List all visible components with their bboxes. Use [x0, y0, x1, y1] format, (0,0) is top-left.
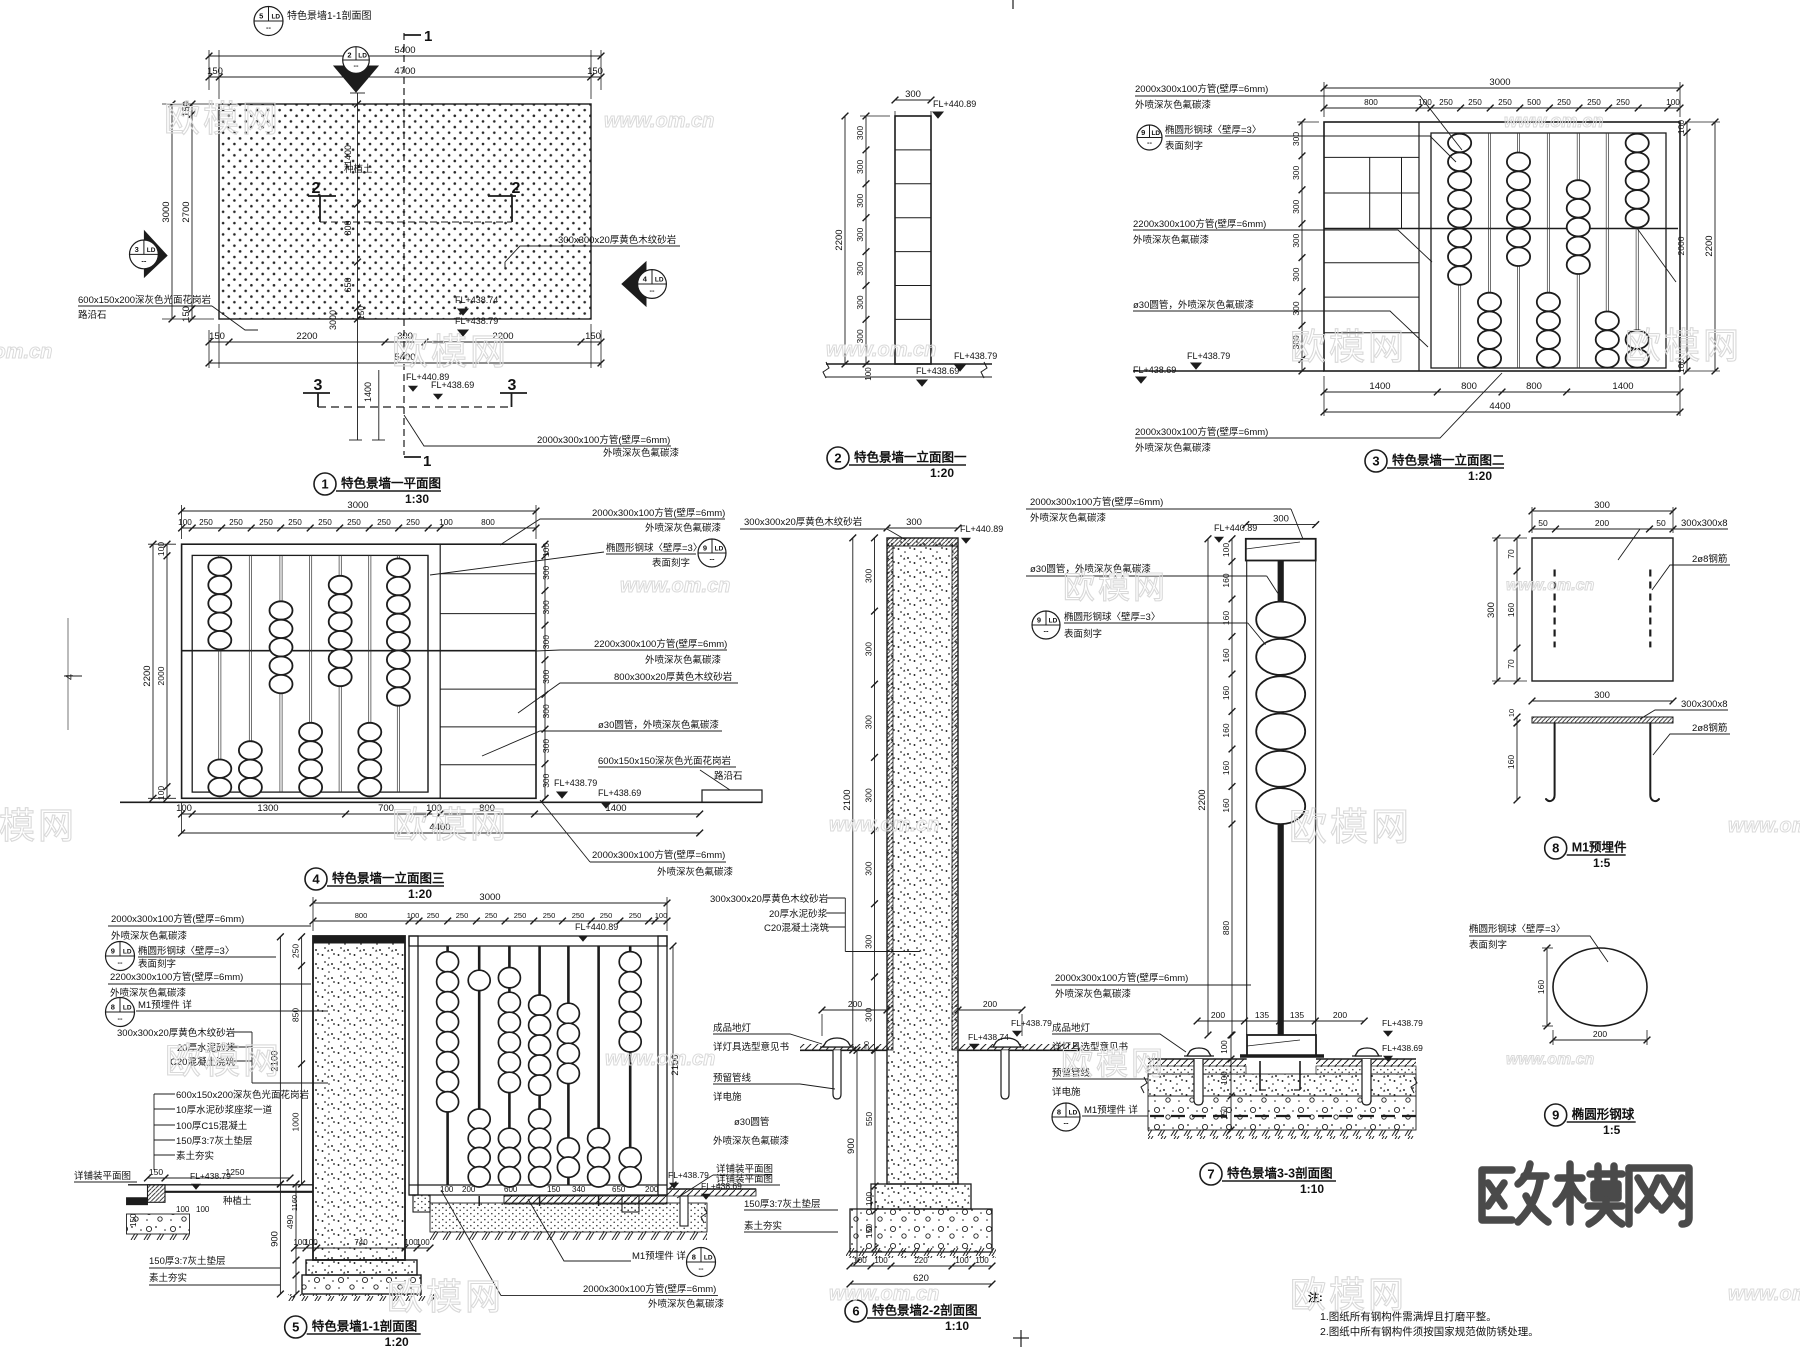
svg-text:ø30圆管，外喷深灰色氟碳漆: ø30圆管，外喷深灰色氟碳漆: [598, 719, 719, 731]
left panel divider: [1418, 122, 1420, 371]
ground line: [120, 801, 762, 803]
svg-text:490: 490: [285, 1215, 295, 1229]
svg-text:外喷深灰色氟碳漆: 外喷深灰色氟碳漆: [1135, 442, 1212, 454]
svg-text:FL+438.69: FL+438.69: [916, 366, 959, 376]
svg-text:椭圆形钢球〈壁厚=3〉: 椭圆形钢球〈壁厚=3〉: [1469, 923, 1565, 935]
gravel layer with dashed line: [1148, 1096, 1416, 1130]
svg-text:150厚3:7灰土垫层: 150厚3:7灰土垫层: [744, 1198, 821, 1210]
svg-text:特色景墙1-1剖面图: 特色景墙1-1剖面图: [312, 1319, 418, 1334]
top dimension chain 800/100/250...: [1324, 107, 1680, 109]
svg-text:1:20: 1:20: [1468, 469, 1492, 483]
svg-text:6: 6: [852, 1304, 859, 1319]
abacus beads column 7: [387, 559, 410, 577]
right dimension chain 100/2000/100: [1686, 122, 1688, 371]
svg-text:2ø8钢筋: 2ø8钢筋: [1692, 553, 1727, 565]
svg-text:3: 3: [314, 377, 323, 394]
svg-text:外喷深灰色氟碳漆: 外喷深灰色氟碳漆: [1135, 99, 1212, 111]
abacus inner frame: [192, 555, 428, 792]
svg-text:300: 300: [1273, 514, 1289, 525]
svg-text:--: --: [354, 61, 359, 70]
svg-text:100: 100: [176, 803, 192, 814]
ground lights: [1184, 1055, 1214, 1057]
svg-text:600: 600: [504, 1185, 518, 1194]
svg-text:1400: 1400: [1369, 381, 1390, 392]
svg-text:2200: 2200: [142, 665, 153, 686]
dim 160 left: [1546, 948, 1548, 1026]
svg-text:3000: 3000: [347, 500, 368, 511]
abacus beads column 4: [1537, 293, 1560, 312]
svg-text:特色景墙一立面图二: 特色景墙一立面图二: [1392, 453, 1505, 468]
svg-text:3: 3: [1372, 454, 1379, 469]
abacus beads column 2: [239, 741, 262, 759]
svg-text:100: 100: [196, 1205, 210, 1214]
svg-text:2: 2: [347, 51, 351, 60]
svg-text:外喷深灰色氟碳漆: 外喷深灰色氟碳漆: [645, 522, 722, 534]
svg-text:200: 200: [848, 999, 862, 1009]
svg-text:LD: LD: [1151, 130, 1160, 137]
svg-text:7: 7: [1207, 1167, 1214, 1182]
centre steel bar: [1278, 561, 1284, 1036]
svg-text:8: 8: [1057, 1108, 1061, 1117]
svg-text:880: 880: [1221, 921, 1231, 935]
dim 300 above plate: [1532, 700, 1673, 702]
dim 200 bottom: [1553, 1039, 1647, 1041]
title 5: [285, 1316, 307, 1338]
svg-text:FL+440.89: FL+440.89: [575, 922, 618, 932]
abacus rods: [218, 555, 220, 792]
overall 2200: [844, 116, 846, 364]
svg-text:250: 250: [543, 911, 556, 920]
right overall 2200: [1714, 122, 1716, 371]
svg-text:1:5: 1:5: [1593, 856, 1611, 870]
mid horizontal tube 2200x300x100: [1324, 228, 1678, 230]
svg-text:300: 300: [855, 160, 865, 174]
svg-text:FL+438.79: FL+438.79: [954, 351, 997, 361]
title 9 椭圆形钢球 1:5: [1545, 1104, 1567, 1126]
svg-text:--: --: [1064, 1119, 1069, 1128]
svg-text:150: 150: [149, 1167, 163, 1177]
svg-text:欧模网: 欧模网: [1289, 807, 1412, 849]
svg-text:1: 1: [423, 453, 431, 470]
abacus rods: [1458, 133, 1460, 368]
svg-text:2000x300x100方管(壁厚=6mm): 2000x300x100方管(壁厚=6mm): [583, 1283, 716, 1295]
svg-text:www.om.cn: www.om.cn: [829, 1283, 939, 1305]
svg-text:50: 50: [1656, 518, 1666, 528]
svg-text:FL+438.79: FL+438.79: [1382, 1018, 1423, 1028]
svg-text:2: 2: [512, 180, 521, 197]
ground strata left of wall: [128, 1184, 313, 1186]
svg-text:LD: LD: [123, 949, 132, 956]
svg-text:300x300x20厚黄色木纹砂岩: 300x300x20厚黄色木纹砂岩: [744, 516, 862, 528]
left dimension chain 300x7: [860, 115, 890, 117]
section beads bar6: [588, 1128, 610, 1148]
svg-text:表面刻字: 表面刻字: [1165, 140, 1203, 152]
svg-text:100: 100: [541, 543, 551, 557]
svg-text:50: 50: [864, 1041, 871, 1049]
svg-text:300x300x8: 300x300x8: [1681, 518, 1727, 529]
svg-text:300: 300: [1594, 690, 1610, 701]
left chain 100/2000/100: [166, 544, 168, 798]
elevation view 特色景墙一立面图二: [1133, 77, 1720, 483]
svg-text:FL+438.79: FL+438.79: [1011, 1018, 1052, 1028]
svg-text:250: 250: [406, 518, 420, 527]
svg-text:9: 9: [703, 544, 707, 553]
top chain 50/200/50: [1532, 528, 1673, 530]
svg-text:欧模网: 欧模网: [392, 331, 509, 372]
svg-text:150厚3:7灰土垫层: 150厚3:7灰土垫层: [149, 1255, 226, 1267]
svg-text:200: 200: [1333, 1010, 1347, 1020]
svg-text:250: 250: [1498, 98, 1512, 107]
svg-text:135: 135: [1290, 1010, 1304, 1020]
section line 1-1 vertical dashed: [403, 33, 405, 455]
svg-text:--: --: [118, 958, 123, 967]
svg-text:LD: LD: [271, 14, 280, 21]
svg-text:LD: LD: [704, 1255, 713, 1262]
svg-text:70: 70: [1506, 659, 1516, 669]
dims 200 200: [822, 1009, 887, 1011]
svg-text:--: --: [1147, 138, 1152, 147]
abacus beads column 4: [299, 723, 322, 741]
title 2 特色景墙一立面图一 1:20: [827, 447, 849, 469]
top chain 100/250x8/100/800: [182, 527, 536, 529]
svg-text:外喷深灰色氟碳漆: 外喷深灰色氟碳漆: [1030, 512, 1107, 524]
bottom cap: [1247, 1035, 1316, 1056]
horizontal joints: [895, 149, 931, 151]
svg-text:100: 100: [955, 1256, 969, 1265]
section beads bar3: [498, 968, 520, 988]
svg-text:1:10: 1:10: [1300, 1182, 1324, 1196]
svg-text:1:20: 1:20: [930, 466, 954, 480]
earth hatch under footing: [288, 1294, 434, 1301]
svg-text:200: 200: [1211, 1010, 1225, 1020]
svg-text:1: 1: [321, 477, 328, 492]
svg-text:欧模网: 欧模网: [164, 98, 281, 139]
svg-text:FL+438.79: FL+438.79: [455, 316, 498, 326]
dim 150 1250: [148, 1177, 291, 1179]
bottom dimension 150 2200 300 2200 150: [218, 324, 220, 368]
svg-text:FL+438.79: FL+438.79: [1187, 351, 1230, 361]
abacus beads column 6: [1596, 312, 1619, 331]
svg-text:100: 100: [178, 518, 192, 527]
svg-text:300x300x20厚黄色木纹砂岩: 300x300x20厚黄色木纹砂岩: [710, 893, 828, 905]
svg-text:成品地灯: 成品地灯: [713, 1022, 752, 1034]
svg-text:2000x300x100方管(壁厚=6mm): 2000x300x100方管(壁厚=6mm): [1135, 83, 1268, 95]
marker bubble 9-LD 椭圆形钢球: [1137, 125, 1162, 150]
svg-text:种植土: 种植土: [223, 1195, 252, 1207]
svg-text:外喷深灰色氟碳漆: 外喷深灰色氟碳漆: [603, 447, 680, 459]
svg-text:250: 250: [199, 518, 213, 527]
svg-text:3000: 3000: [479, 892, 500, 903]
svg-text:300: 300: [1291, 267, 1301, 281]
svg-text:4: 4: [312, 872, 320, 887]
frame side lines: [1246, 561, 1248, 1036]
outer wall rectangle: [1324, 122, 1680, 371]
wall footing gravel: [302, 1275, 421, 1294]
svg-text:路沿石: 路沿石: [78, 309, 107, 321]
ground strata right of frame: [667, 1188, 756, 1190]
svg-text:100: 100: [975, 1256, 989, 1265]
svg-text:外喷深灰色氟碳漆: 外喷深灰色氟碳漆: [648, 1298, 725, 1310]
soil layer: [1148, 1074, 1416, 1096]
rebar dashed lines: [1553, 570, 1555, 648]
svg-text:1:30: 1:30: [405, 492, 429, 506]
top dim 300: [887, 527, 958, 529]
plate plan square: [1532, 538, 1673, 681]
svg-text:200: 200: [645, 1185, 659, 1194]
right panel horizontal joints: [440, 573, 536, 575]
svg-text:550: 550: [864, 1112, 874, 1126]
svg-text:500: 500: [1527, 98, 1541, 107]
svg-text:--: --: [141, 256, 146, 265]
svg-text:2000x300x100方管(壁厚=6mm): 2000x300x100方管(壁厚=6mm): [111, 913, 244, 925]
svg-text:250: 250: [291, 944, 301, 958]
svg-text:250: 250: [259, 518, 273, 527]
svg-text:250: 250: [572, 911, 585, 920]
plan centre pole line: [357, 93, 359, 440]
svg-text:300x300x8: 300x300x8: [1681, 699, 1727, 710]
svg-text:1400: 1400: [1612, 381, 1633, 392]
svg-text:欧模网: 欧模网: [1290, 326, 1407, 367]
svg-text:FL+438.69: FL+438.69: [431, 380, 474, 390]
svg-text:100: 100: [176, 1205, 190, 1214]
svg-text:8: 8: [111, 1003, 115, 1012]
svg-text:160: 160: [1221, 573, 1231, 587]
svg-text:详电施: 详电施: [1052, 1086, 1081, 1098]
svg-text:欧模网: 欧模网: [1290, 1274, 1407, 1315]
svg-text:150: 150: [209, 331, 225, 342]
ground light left: [820, 1046, 854, 1048]
marker bubble 5-LD with title text: [254, 7, 283, 36]
svg-text:欧模网: 欧模网: [1063, 569, 1168, 605]
planting area dotted rectangle: [219, 104, 591, 319]
svg-text:160: 160: [1506, 603, 1516, 617]
svg-text:www.om.cn: www.om.cn: [620, 575, 730, 597]
kerb hatch block: [148, 1185, 166, 1203]
svg-text:800: 800: [1364, 98, 1378, 107]
svg-text:250: 250: [347, 518, 361, 527]
svg-text:1160: 1160: [290, 1195, 299, 1211]
svg-text:9: 9: [1037, 616, 1041, 625]
title 6 特色景墙2-2剖面图 1:10: [845, 1300, 867, 1322]
svg-text:椭圆形钢球〈壁厚=3〉: 椭圆形钢球〈壁厚=3〉: [1165, 124, 1261, 136]
big watermark logo 欧模网: [1482, 1164, 1689, 1224]
title 1 特色景墙一平面图 1:30: [314, 473, 336, 495]
svg-text:C20混凝土浇筑: C20混凝土浇筑: [764, 922, 829, 934]
svg-text:10厚水泥砂浆座浆一道: 10厚水泥砂浆座浆一道: [176, 1104, 273, 1116]
left dimension chain 300s: [1301, 122, 1303, 371]
abacus beads column 5: [1567, 180, 1590, 199]
svg-text:250: 250: [1557, 98, 1571, 107]
svg-text:1400: 1400: [363, 382, 373, 402]
svg-text:300: 300: [864, 934, 874, 948]
svg-text:欧模网: 欧模网: [387, 1276, 504, 1317]
svg-text:外喷深灰色氟碳漆: 外喷深灰色氟碳漆: [645, 654, 722, 666]
top dimension 3000: [1323, 82, 1325, 117]
svg-text:100: 100: [407, 911, 420, 920]
svg-text:特色景墙1-1剖面图: 特色景墙1-1剖面图: [287, 9, 371, 22]
svg-text:300: 300: [1486, 602, 1497, 618]
svg-text:外喷深灰色氟碳漆: 外喷深灰色氟碳漆: [657, 866, 734, 878]
svg-text:740: 740: [354, 1238, 368, 1247]
svg-text:160: 160: [1221, 648, 1231, 662]
abacus inner frame: [1431, 133, 1666, 368]
svg-text:www.om.cn: www.om.cn: [1506, 577, 1595, 594]
abacus frame in section: [409, 936, 667, 946]
section beads bar1: [437, 952, 459, 972]
svg-text:1:5: 1:5: [1603, 1123, 1621, 1137]
left dim 900 550 100 150: [856, 1050, 858, 1262]
svg-text:160: 160: [1506, 755, 1516, 769]
svg-text:8: 8: [1552, 841, 1559, 856]
svg-text:650: 650: [612, 1185, 626, 1194]
svg-text:特色景墙一平面图: 特色景墙一平面图: [341, 476, 441, 491]
svg-text:www.om.cn: www.om.cn: [1504, 111, 1603, 131]
svg-text:300: 300: [541, 669, 551, 683]
svg-text:2000: 2000: [1676, 236, 1686, 255]
outer wall rectangle: [182, 544, 536, 798]
svg-text:表面刻字: 表面刻字: [652, 557, 690, 569]
svg-text:150: 150: [864, 1224, 874, 1238]
svg-text:M1预埋件 详: M1预埋件 详: [1084, 1104, 1138, 1116]
bottom dims 100 100 220 100 100 / 620: [850, 1265, 992, 1267]
svg-text:椭圆形钢球〈壁厚=3〉: 椭圆形钢球〈壁厚=3〉: [1064, 611, 1160, 623]
svg-text:340: 340: [572, 1185, 586, 1194]
right side pavement of section 5: [667, 1189, 756, 1196]
svg-text:LD: LD: [123, 1005, 132, 1012]
svg-text:外喷深灰色氟碳漆: 外喷深灰色氟碳漆: [713, 1135, 790, 1147]
svg-text:www.om.cn: www.om.cn: [826, 339, 936, 361]
svg-text:9: 9: [1141, 128, 1145, 137]
svg-text:100: 100: [1220, 1071, 1229, 1085]
svg-text:2.图纸中所有钢构件须按国家规范做防锈处理。: 2.图纸中所有钢构件须按国家规范做防锈处理。: [1320, 1325, 1539, 1338]
svg-text:ø30圆管，外喷深灰色氟碳漆: ø30圆管，外喷深灰色氟碳漆: [1133, 299, 1254, 311]
marker bubble 2-LD with down triangle: [334, 66, 378, 92]
marker bubble 4-LD with left triangle: [622, 262, 646, 306]
svg-text:--: --: [699, 1264, 704, 1273]
left dim chain 300x7: [874, 538, 876, 1050]
svg-text:100: 100: [1666, 98, 1680, 107]
svg-text:1400: 1400: [343, 145, 353, 165]
svg-text:300: 300: [905, 89, 921, 100]
section 5 top dims 3000 and chain: [312, 897, 314, 931]
svg-text:800: 800: [1526, 381, 1542, 392]
svg-text:200: 200: [1593, 1029, 1607, 1039]
svg-text:300: 300: [1291, 132, 1301, 146]
left chain 70/160/70: [1516, 538, 1518, 681]
section beads bar5: [557, 1003, 579, 1023]
svg-text:200: 200: [1595, 518, 1609, 528]
svg-text:20厚水泥砂浆: 20厚水泥砂浆: [769, 908, 828, 920]
svg-text:表面刻字: 表面刻字: [1064, 628, 1102, 640]
svg-text:素土夯实: 素土夯实: [744, 1220, 782, 1232]
svg-text:4700: 4700: [394, 66, 415, 77]
svg-text:150厚3:7灰土垫层: 150厚3:7灰土垫层: [176, 1135, 253, 1147]
ground pavement: [1148, 1058, 1247, 1060]
conduit right of frame: [680, 1196, 688, 1226]
svg-text:外喷深灰色氟碳漆: 外喷深灰色氟碳漆: [1133, 234, 1210, 246]
svg-text:特色景墙一立面图三: 特色景墙一立面图三: [332, 871, 445, 886]
svg-text:FL+438.79: FL+438.79: [554, 778, 597, 788]
left panel vertical joints: [1369, 157, 1371, 228]
wall base step: [306, 1260, 417, 1275]
svg-text:150: 150: [356, 306, 366, 320]
svg-text:300: 300: [541, 600, 551, 614]
svg-text:300: 300: [541, 739, 551, 753]
abacus beads column 2: [1478, 293, 1501, 312]
svg-text:1:20: 1:20: [408, 887, 432, 901]
svg-text:600x150x150深灰色光面花岗岩: 600x150x150深灰色光面花岗岩: [598, 755, 731, 767]
svg-text:200: 200: [462, 1185, 476, 1194]
svg-text:850: 850: [291, 1008, 301, 1022]
title 4 特色景墙一立面图三 1:20: [305, 868, 327, 890]
svg-text:表面刻字: 表面刻字: [1469, 939, 1507, 951]
abacus beads column 6: [358, 723, 381, 741]
svg-text:路沿石: 路沿石: [714, 770, 743, 782]
svg-text:FL+438.74: FL+438.74: [455, 295, 498, 305]
svg-text:成品地灯: 成品地灯: [1052, 1022, 1091, 1034]
svg-text:2000x300x100方管(壁厚=6mm): 2000x300x100方管(壁厚=6mm): [1055, 972, 1188, 984]
svg-text:3000: 3000: [328, 310, 338, 330]
elevation view 特色景墙一立面图三: [120, 500, 762, 901]
svg-text:FL+438.79: FL+438.79: [190, 1171, 231, 1181]
svg-text:表面刻字: 表面刻字: [138, 958, 176, 970]
ground lines and pavement: [800, 1049, 887, 1051]
svg-text:3: 3: [135, 245, 139, 254]
abacus beads column 3: [270, 601, 293, 619]
svg-text:100: 100: [853, 1256, 867, 1265]
top dim 300: [1532, 510, 1673, 512]
svg-text:1300: 1300: [257, 803, 278, 814]
svg-text:2ø8钢筋: 2ø8钢筋: [1692, 722, 1727, 734]
marker bubble 3-LD with right triangle: [144, 231, 167, 277]
svg-text:4400: 4400: [1489, 401, 1510, 412]
svg-text:250: 250: [1439, 98, 1453, 107]
svg-text:M1预埋件 详: M1预埋件 详: [632, 1250, 686, 1262]
svg-text:800: 800: [1461, 381, 1477, 392]
svg-text:300: 300: [1291, 233, 1301, 247]
svg-text:250: 250: [1468, 98, 1482, 107]
ground line: [1133, 370, 1324, 372]
svg-text:800x300x20厚黄色木纹砂岩: 800x300x20厚黄色木纹砂岩: [614, 671, 732, 683]
svg-text:100: 100: [874, 1256, 888, 1265]
svg-text:www.om.cn: www.om.cn: [0, 341, 52, 363]
column pedestal: [871, 1184, 971, 1209]
svg-text:300: 300: [864, 569, 874, 583]
top dimension 150 4700 150: [209, 76, 601, 78]
svg-text:1:20: 1:20: [385, 1335, 409, 1347]
elevation view 特色景墙一立面图一: [823, 89, 997, 480]
svg-text:--: --: [1044, 627, 1049, 636]
svg-text:250: 250: [485, 911, 498, 920]
svg-text:2200x300x100方管(壁厚=6mm): 2200x300x100方管(壁厚=6mm): [1133, 218, 1266, 230]
svg-text:1000: 1000: [291, 1112, 301, 1131]
svg-text:2700: 2700: [181, 201, 192, 222]
svg-text:2200: 2200: [1704, 235, 1715, 256]
svg-text:LD: LD: [1069, 1110, 1078, 1117]
svg-text:www.om.cn: www.om.cn: [1728, 815, 1800, 837]
svg-text:--: --: [118, 1014, 123, 1023]
top centre tick: [1012, 0, 1014, 9]
svg-text:150: 150: [207, 66, 223, 77]
svg-text:300: 300: [1594, 500, 1610, 511]
top cap 300 wide: [1246, 539, 1316, 561]
svg-text:250: 250: [1616, 98, 1630, 107]
svg-text:100: 100: [655, 911, 668, 920]
svg-text:FL+438.74: FL+438.74: [968, 1032, 1009, 1042]
anchor bolts: [1259, 1061, 1261, 1090]
svg-text:600x150x200深灰色光面花岗岩: 600x150x200深灰色光面花岗岩: [176, 1089, 309, 1101]
svg-text:220: 220: [914, 1256, 928, 1265]
